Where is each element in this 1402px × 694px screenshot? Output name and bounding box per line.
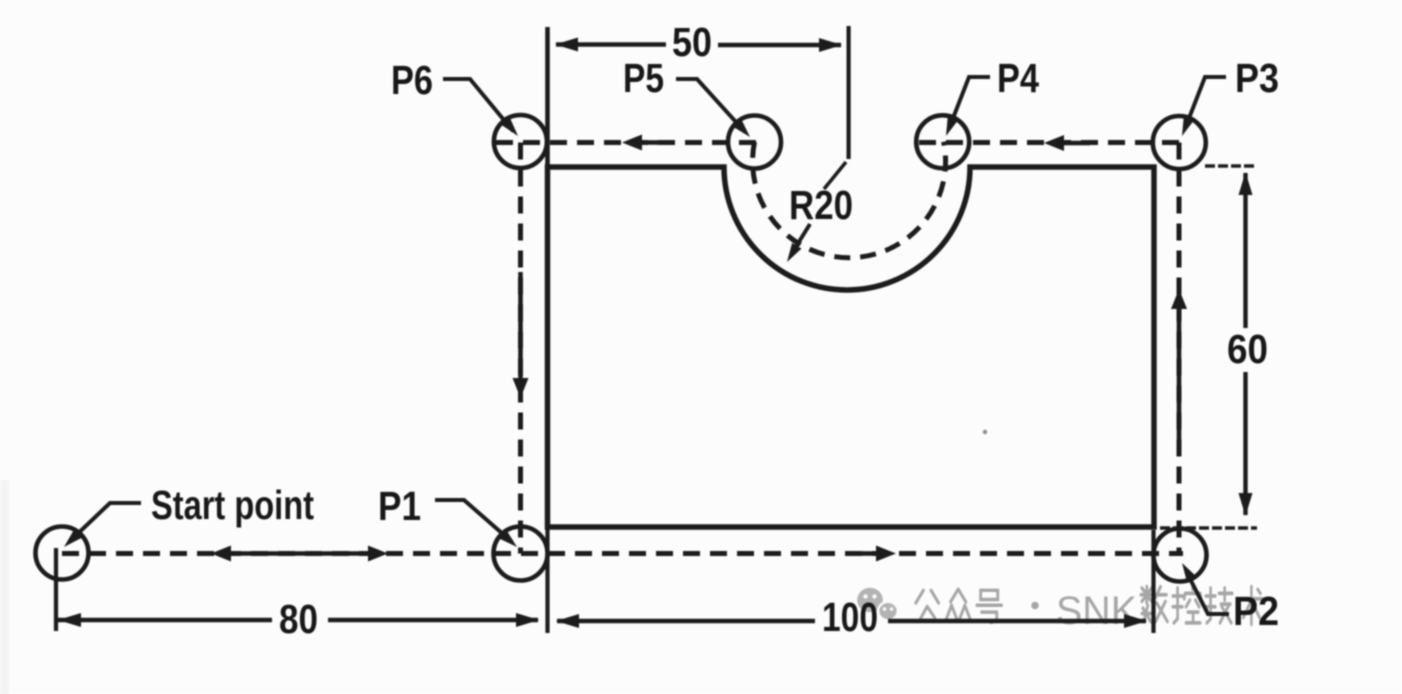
double-headed solid arrow between Start and P1 — [211, 546, 388, 562]
leader P6 — [443, 79, 513, 131]
dim 50 left arrowhead — [555, 38, 578, 52]
dim 80 left arrowhead — [58, 613, 81, 627]
arrow on top dashed P6-P5 (left) — [622, 135, 668, 151]
dim 100 line left part — [557, 619, 815, 623]
arrow on bottom dashed P1-P2 (right) — [848, 546, 896, 562]
toolpath dashed bottom horizontal — [62, 551, 1183, 556]
dim 50 right extension line (arc center) — [846, 26, 850, 159]
watermark char gong — [916, 590, 939, 620]
dim 60 line upper part — [1243, 173, 1247, 328]
toolpath dashed top horizontal P4-P3 — [919, 140, 1186, 145]
svg-text:P3: P3 — [1235, 55, 1279, 101]
svg-text:Start point: Start point — [151, 482, 314, 528]
svg-text:P2: P2 — [1233, 588, 1279, 634]
dim 100 right extension line — [1151, 530, 1155, 633]
dim 80 line left part — [57, 618, 272, 622]
leader P3 — [1186, 77, 1226, 126]
watermark char shu — [1141, 587, 1167, 622]
dim 60 top extension line — [1205, 164, 1256, 167]
point circle P4 — [916, 115, 969, 168]
svg-text:P1: P1 — [378, 483, 421, 529]
dim 80/100 middle extension line — [545, 528, 549, 633]
point circle Start — [36, 527, 89, 580]
watermark char zhong — [946, 589, 971, 620]
toolpath dashed right vertical — [1177, 143, 1182, 556]
watermark wechat icon — [857, 588, 898, 620]
point circle P6 — [494, 115, 547, 168]
toolpath dashed top horizontal P6-P5 — [496, 140, 762, 145]
faint scan smudge bottom-left edge — [0, 480, 9, 694]
svg-text:P5: P5 — [623, 55, 664, 101]
watermark char hao — [977, 590, 1002, 622]
dim 80 line right part — [328, 618, 538, 622]
watermark middle dot — [1031, 602, 1039, 610]
dim 50 left extension line — [545, 27, 550, 167]
watermark char ji — [1206, 588, 1232, 623]
point circle P1 — [494, 527, 548, 581]
dim 100 line right part — [888, 619, 1146, 623]
point circle P3 — [1153, 116, 1206, 169]
leader P5 — [676, 79, 745, 132]
dim 80 right arrowhead — [516, 613, 539, 627]
leader P4 — [950, 77, 990, 126]
svg-text:R20: R20 — [789, 182, 853, 228]
toolpath dashed arc R20 — [753, 142, 946, 258]
dim 50 line left part — [556, 42, 666, 46]
svg-text:P6: P6 — [391, 57, 433, 103]
leader P1 — [435, 500, 512, 542]
dim 60 bottom extension line — [1160, 526, 1257, 529]
dim 100 left arrowhead — [556, 614, 579, 628]
speck dot — [983, 430, 987, 434]
dim 50 right arrowhead — [819, 38, 842, 52]
point circle P5 — [728, 116, 781, 169]
dim 60 line lower part — [1243, 372, 1247, 515]
dim 60 bottom arrowhead — [1239, 493, 1253, 516]
dim 100 right arrowhead — [1124, 614, 1147, 628]
leader P2 — [1186, 571, 1229, 614]
leader Start point — [70, 503, 141, 541]
dim 50 line right part — [718, 43, 841, 47]
leader R20 arrow — [792, 224, 810, 253]
svg-text:P4: P4 — [997, 55, 1039, 101]
arrow on right dashed vertical (up) — [1171, 289, 1187, 440]
leader R20 elbow from extension line — [824, 162, 846, 189]
svg-text:50: 50 — [672, 19, 712, 65]
watermark char kong — [1173, 585, 1201, 623]
arrow on left dashed vertical (down) — [513, 272, 529, 398]
svg-text:100: 100 — [822, 594, 878, 640]
point circle P2 — [1154, 529, 1207, 582]
toolpath dashed left vertical — [518, 143, 523, 554]
watermark char shu2 — [1241, 587, 1263, 625]
dim 80 left extension line — [54, 548, 58, 631]
svg-text:80: 80 — [279, 596, 318, 642]
workpiece outline with R20 notch — [548, 167, 1155, 527]
arrow on top dashed P3-P4 (left) — [1044, 135, 1090, 151]
svg-text:60: 60 — [1227, 326, 1268, 372]
dim 60 top arrowhead — [1239, 172, 1253, 195]
